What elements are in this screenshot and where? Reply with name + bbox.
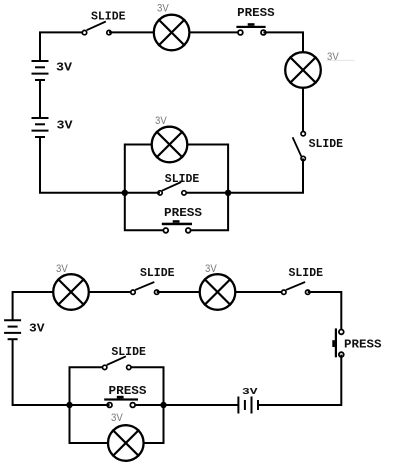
wire circuit1 top-left corner to slide S1	[40, 32, 85, 61]
slide switch S6	[103, 356, 132, 369]
wire lamp branch right drop	[126, 405, 164, 443]
press switch P1	[236, 23, 265, 35]
svg-text:PRESS: PRESS	[164, 206, 202, 220]
svg-text:SLIDE: SLIDE	[309, 137, 344, 151]
press switch P2	[162, 220, 192, 233]
wire circuit2 top-left corner to battery B4	[13, 292, 133, 320]
svg-text:SLIDE: SLIDE	[140, 266, 175, 280]
press switch P3 (vertical)	[332, 328, 343, 357]
svg-text:3V: 3V	[57, 119, 74, 133]
wire P1 to top-right corner down to slide S2	[263, 32, 303, 131]
wire J1 to bottom-left corner up to battery B2	[40, 137, 125, 193]
lamp L1	[154, 15, 190, 51]
lamp L5	[200, 274, 236, 310]
svg-text:SLIDE: SLIDE	[91, 10, 126, 24]
wire lamp branch right riser	[170, 145, 229, 193]
svg-text:PRESS: PRESS	[237, 6, 275, 20]
slide switch S1	[82, 22, 111, 35]
svg-text:3V: 3V	[242, 386, 258, 397]
junction J2	[225, 190, 231, 196]
slide switch S4	[131, 282, 159, 294]
wire S1 to press P1	[109, 31, 240, 33]
lamp L4	[53, 274, 89, 310]
svg-text:SLIDE: SLIDE	[111, 345, 145, 359]
wire P3 to bottom-right corner to battery B3	[259, 355, 341, 405]
wire press branch right drop	[188, 193, 228, 230]
press switch P4	[104, 396, 138, 408]
faint underline artifact below L2 label	[327, 60, 355, 61]
wire slide branch left riser	[70, 367, 105, 405]
svg-text:3V: 3V	[205, 263, 217, 275]
wire J3 to bottom-left corner up to battery B4	[13, 339, 70, 405]
battery B4	[4, 320, 21, 339]
svg-text:3V: 3V	[155, 115, 167, 127]
battery B3 (horizontal)	[238, 397, 258, 414]
lamp L2	[285, 52, 321, 88]
wire S3 to junction J1	[125, 192, 160, 194]
svg-text:3V: 3V	[56, 61, 73, 75]
svg-text:3V: 3V	[157, 3, 169, 15]
svg-text:3V: 3V	[111, 412, 123, 424]
wire press branch left drop	[125, 193, 166, 230]
slide switch S5	[282, 282, 310, 294]
wire P4 to junction J3	[70, 404, 110, 406]
wire S4 to slide S5	[157, 291, 284, 293]
svg-text:3V: 3V	[29, 321, 45, 335]
lamp L3	[152, 127, 188, 163]
svg-text:3V: 3V	[56, 263, 68, 275]
slide switch S2 (vertical)	[293, 132, 306, 161]
svg-text:SLIDE: SLIDE	[165, 172, 200, 186]
wire lamp branch left riser	[125, 145, 170, 193]
wire J2 to slide S3	[184, 192, 228, 194]
svg-text:PRESS: PRESS	[109, 384, 147, 398]
wire J4 to press P4	[133, 404, 164, 406]
wire lamp branch left drop	[70, 405, 126, 443]
svg-text:3V: 3V	[327, 51, 339, 63]
junction J3	[66, 402, 72, 408]
wire S5 to top-right corner down to press P3	[308, 292, 342, 332]
lamp L6	[108, 425, 144, 461]
svg-text:SLIDE: SLIDE	[289, 266, 324, 280]
slide switch S3	[158, 182, 186, 195]
battery B2	[32, 118, 49, 137]
svg-text:PRESS: PRESS	[344, 338, 382, 352]
junction J1	[122, 190, 128, 196]
battery B1	[32, 61, 49, 80]
wire B3 to junction J4	[164, 404, 239, 406]
wire B2 to battery B1	[39, 80, 41, 118]
wire S2 to bottom-right corner to junction J2	[228, 159, 303, 193]
wire slide branch right riser	[129, 367, 164, 405]
junction J4	[160, 402, 166, 408]
